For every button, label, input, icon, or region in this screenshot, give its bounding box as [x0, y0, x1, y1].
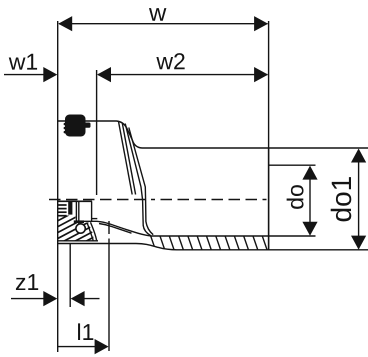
cone slant C — [125, 124, 151, 236]
thread rung 3 — [58, 211, 67, 213]
insert rect right edge — [91, 201, 93, 221]
hatching bottom band — [150, 234, 277, 252]
arrow do down — [302, 222, 317, 236]
arrow do1 down — [351, 236, 366, 250]
insert rect bottom / bore start — [80, 221, 151, 236]
socket inner bottom line — [58, 240, 98, 242]
label do1 — [331, 177, 352, 221]
label w — [149, 8, 166, 21]
outline top collar + shoulder + barrel top — [58, 121, 368, 148]
dimension line w2 — [98, 74, 268, 76]
seal blob tab — [84, 123, 91, 128]
tick right of insert — [92, 218, 97, 220]
dimension line do vertical — [309, 168, 311, 234]
dimension line z1 left — [11, 298, 49, 300]
extension line right end x=268.6 — [268, 21, 270, 250]
extension line z1 right x=70.2 — [69, 244, 71, 307]
o-ring seal circle — [76, 224, 85, 233]
funnel curve outer — [87, 223, 93, 241]
arrow w1 — [43, 67, 57, 82]
thread rung 4 — [58, 215, 67, 217]
thread rung 1 — [58, 204, 67, 206]
seal blob body — [65, 115, 86, 137]
cone slant B — [122, 123, 135, 195]
arrow do1 up — [351, 149, 366, 163]
outline bottom socket + transition + barrel bottom — [58, 244, 368, 250]
cone slant A — [119, 122, 133, 195]
dimension line w1 — [4, 74, 50, 76]
reference line l1 dashed x=109 — [108, 221, 110, 234]
dimension line l1 — [58, 346, 100, 348]
extension line w2 left x=96.6 — [96, 70, 98, 195]
thread insert black bar — [68, 201, 72, 215]
insert double line right — [78, 201, 80, 223]
arrow w left — [58, 16, 72, 31]
label w2 — [156, 53, 184, 69]
hatching left block — [50, 193, 100, 267]
do tick bottom / inner wall line — [151, 235, 316, 237]
thread top line — [58, 200, 92, 202]
arrow do up — [302, 166, 317, 180]
cone slant D — [129, 128, 153, 235]
dimension line z1 right — [78, 298, 100, 300]
arrow z1 left — [43, 291, 57, 306]
arrow z1 right — [71, 291, 85, 306]
arrow l1 — [95, 339, 109, 354]
label z1 — [16, 274, 38, 290]
extension line left face x=57.7 — [57, 21, 59, 352]
bore parallel line — [99, 224, 132, 234]
end face right — [268, 148, 270, 250]
arrow w right — [254, 16, 268, 31]
dimension line w — [59, 23, 268, 25]
centerline dashed — [49, 199, 271, 201]
insert double line left — [75, 201, 77, 223]
thread rung 2 — [58, 208, 67, 210]
label w1 — [9, 54, 37, 70]
arrow w2 left — [97, 67, 111, 82]
do tick top — [269, 164, 316, 166]
label l1 — [78, 323, 93, 340]
dimension line do1 vertical — [358, 150, 360, 249]
groove top thick band — [74, 220, 84, 223]
funnel curve inner — [91, 222, 97, 240]
arrow w2 right — [254, 67, 268, 82]
label do — [287, 185, 304, 209]
